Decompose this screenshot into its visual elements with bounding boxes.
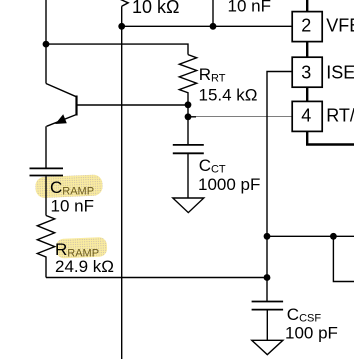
pin box 3 <box>292 57 322 87</box>
svg-text:4: 4 <box>301 105 311 125</box>
node: junction dot RT/CT pin wire <box>185 113 192 120</box>
svg-text:15.4 kΩ: 15.4 kΩ <box>199 86 258 105</box>
wire: y=236 to right edge <box>267 235 354 237</box>
svg-text:10 nF: 10 nF <box>228 0 271 16</box>
svg-text:RT/CT: RT/CT <box>326 105 354 125</box>
transistor Q1 <box>46 84 77 127</box>
capacitor C_RAMP <box>30 168 64 175</box>
svg-text:10 kΩ: 10 kΩ <box>132 0 179 17</box>
resistor R_RAMP <box>37 216 54 278</box>
base bar <box>75 96 77 116</box>
ground under C_CT <box>173 198 204 213</box>
wire: collector node to R_RT top, y=44 <box>46 44 188 55</box>
IC U1 left boundary (thick) with bottom corner <box>307 0 354 145</box>
resistor 10 kOhm (partial, top edge) <box>120 0 129 6</box>
capacitor C_CT <box>173 145 204 198</box>
wire: branch down from x=333 then right <box>333 236 354 281</box>
svg-text:3: 3 <box>301 63 311 83</box>
ground under C_CSF <box>252 340 283 354</box>
node: junction dot RT/CT base wire <box>185 101 192 108</box>
svg-text:24.9 kΩ: 24.9 kΩ <box>55 257 114 276</box>
emitter diagonal <box>47 115 77 127</box>
wire: C_RAMP to R_RAMP <box>45 176 47 215</box>
node: junction dot ISENSE / R_RAMP wire <box>264 274 271 281</box>
highlight over C_RAMP label <box>35 174 103 198</box>
wire: 10k resistor bottom to VFB node, full-height vertical at x=121.5 <box>121 6 123 359</box>
svg-text:VFB: VFB <box>326 16 354 36</box>
pin box 4 <box>292 101 322 131</box>
wire: R_RAMP bottom to ISENSE node, y=277.5 <box>46 277 267 279</box>
wire: Q1 emitter down to C_RAMP <box>45 126 47 167</box>
svg-text:1000 pF: 1000 pF <box>198 175 260 194</box>
wire: RT/CT node to pin 4, y=116.8 <box>188 116 196 118</box>
wire: pin 3 ISENSE to vertical x=267 <box>267 72 292 301</box>
svg-text:2: 2 <box>301 16 311 36</box>
node: junction dot on collector at y=44 <box>43 41 50 48</box>
transistor Q1 collector vertical wire <box>45 0 47 84</box>
emitter arrow <box>55 114 67 124</box>
highlight over R_RAMP label <box>56 237 108 259</box>
svg-text:10 nF: 10 nF <box>51 197 94 216</box>
node: junction dot at 10k / VFB wire <box>118 23 125 30</box>
pin box 2 <box>292 12 322 42</box>
node: junction dot ISENSE / right branch y=236 <box>264 233 271 240</box>
resistor R_RT <box>179 55 196 145</box>
collector diagonal <box>46 84 77 97</box>
svg-text:ISENSE: ISENSE <box>326 63 354 83</box>
wire: Q1 base to RT/CT node, y=105 <box>77 104 189 106</box>
wire: 10 nF capacitor lead from top edge at x=213 <box>212 0 214 26</box>
wire: horizontal to pin 2 (VFB) at y=26.3 <box>122 25 293 27</box>
svg-text:100 pF: 100 pF <box>285 323 338 342</box>
capacitor C_CSF <box>252 302 284 341</box>
node: junction dot at 10nF / VFB wire <box>210 23 217 30</box>
node: junction dot at x=333 <box>330 233 337 240</box>
